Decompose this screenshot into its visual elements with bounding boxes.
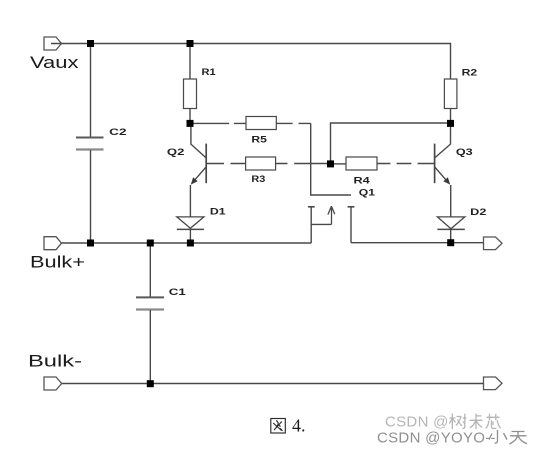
mosfet Q1 left terminal [310, 207, 312, 243]
wire R2 bottom [450, 109, 452, 124]
svg-text:Bulk+: Bulk+ [30, 253, 85, 272]
mosfet Q1 channel link [311, 223, 331, 225]
label Q2 [167, 147, 185, 158]
resistor R2 [444, 79, 457, 109]
wire C1 branch top [149, 243, 151, 297]
watermark line1 CSDN shukahua [385, 414, 501, 431]
label R2 [462, 67, 478, 78]
wire right bottom rail [351, 242, 490, 244]
wire R5 to gate [276, 123, 351, 195]
svg-text:Bulk-: Bulk- [28, 352, 82, 371]
label Vaux [30, 53, 79, 72]
label D1 [210, 206, 227, 217]
svg-text:D2: D2 [470, 207, 486, 218]
transistor Q3 emitter [435, 167, 451, 185]
svg-text:Q1: Q1 [359, 187, 376, 198]
wire R1 bottom [189, 109, 191, 124]
resistor R3 [246, 157, 276, 170]
svg-text:Q3: Q3 [456, 147, 473, 158]
svg-text:C2: C2 [109, 127, 126, 138]
wire R1 top [189, 44, 191, 80]
node D2 rail [447, 239, 454, 246]
capacitor C1 [136, 297, 164, 309]
diode D2 [437, 217, 464, 230]
node Bulk+ C2 [87, 240, 94, 247]
svg-text:Vaux: Vaux [30, 53, 79, 72]
diode D1 [177, 217, 204, 230]
wire Q3 emitter to D2 [450, 185, 452, 217]
label C2 [109, 127, 126, 138]
wire node to R5 [190, 122, 246, 124]
mosfet Q1 bulk arrow [328, 206, 335, 224]
node top C2 [87, 40, 94, 47]
mosfet Q1 right terminal [350, 207, 352, 243]
caption figure 4 [271, 416, 306, 436]
wire top rail [51, 44, 451, 80]
resistor R1 [184, 79, 197, 109]
resistor R4 [346, 157, 377, 170]
port right Bulk+ row [484, 237, 503, 250]
wire Q2 emitter to D1 [189, 185, 191, 217]
wire Q2 base to R3 [206, 163, 245, 165]
svg-text:CSDN @: CSDN @ [385, 414, 449, 431]
label C1 [169, 287, 187, 298]
label R1 [202, 67, 217, 78]
svg-text:R1: R1 [202, 67, 217, 78]
watermark line2 CSDN yoyo [377, 430, 527, 447]
port Bulk+ [44, 237, 62, 250]
svg-text:4.: 4. [292, 416, 306, 436]
port right Bulk- row [484, 377, 503, 390]
wire D1 to rail [189, 229, 191, 243]
svg-text:D1: D1 [210, 206, 227, 217]
svg-text:Q2: Q2 [167, 147, 185, 158]
port Vaux [44, 37, 62, 50]
capacitor C2 [76, 138, 104, 150]
wire C2 branch bottom [90, 150, 92, 243]
svg-text:R2: R2 [462, 67, 478, 78]
svg-text:CSDN @YOYO--: CSDN @YOYO-- [377, 430, 496, 447]
label Q1 [359, 187, 376, 198]
wire C2 branch top [90, 44, 92, 138]
label R4 [354, 176, 371, 187]
node R4 left [327, 160, 334, 167]
mosfet Q1 left gate cap [308, 206, 315, 208]
wire C1 branch bottom [149, 310, 151, 384]
node R2 bottom [447, 120, 454, 127]
label D2 [470, 207, 486, 218]
svg-text:R5: R5 [251, 135, 267, 146]
transistor Q3 collector [435, 127, 451, 158]
label Q3 [456, 147, 473, 158]
wire node to R4 [331, 163, 347, 165]
node Bulk- C1 [147, 380, 154, 387]
wire node up and across to Q3 node [331, 123, 451, 164]
transistor Q2 base bar [205, 144, 207, 184]
label R3 [251, 174, 265, 185]
label Bulk+ [30, 253, 85, 272]
transistor Q2 emitter [191, 167, 206, 185]
node Bulk+ C1 [147, 240, 154, 247]
svg-text:C1: C1 [169, 287, 187, 298]
mosfet Q1 right gate cap [348, 206, 355, 208]
wire Bulk- rail [51, 383, 490, 385]
svg-text:R4: R4 [354, 176, 371, 187]
node R1 bottom [187, 120, 194, 127]
port Bulk- [44, 377, 62, 390]
wire D2 to rail [450, 229, 452, 243]
label Bulk- [28, 352, 82, 371]
node Bulk+ D1 [187, 240, 194, 247]
transistor Q3 base bar [434, 144, 436, 184]
resistor R5 [246, 117, 276, 130]
label R5 [251, 135, 267, 146]
transistor Q2 collector [191, 127, 206, 158]
node top R1 [187, 40, 194, 47]
wire R3 to node [276, 163, 331, 165]
svg-text:R3: R3 [251, 174, 265, 185]
wire R4 to Q3 base [377, 163, 435, 165]
wire Bulk+ rail [51, 242, 311, 244]
